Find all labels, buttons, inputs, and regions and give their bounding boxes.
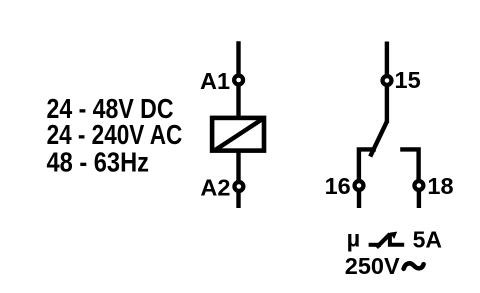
coil rating text line 2: 24 - 240V AC (47, 120, 183, 151)
terminal A1 (234, 76, 243, 85)
svg-text:16: 16 (325, 173, 351, 199)
wire: A2 bottom lead (236, 152, 240, 208)
relay coil box (212, 118, 264, 151)
terminal A2 (234, 182, 243, 191)
svg-text:18: 18 (427, 173, 453, 199)
wire: 18 bottom lead (417, 190, 421, 208)
wire: 16 bottom lead (357, 190, 361, 208)
svg-text:A1: A1 (200, 68, 230, 94)
contact arm 18 (NO) (400, 149, 418, 184)
AC sine symbol (404, 263, 424, 268)
micro-gap contact symbol with arrow (369, 232, 405, 248)
svg-text:A2: A2 (200, 175, 230, 201)
terminal 18 (414, 181, 423, 190)
wire: A1 top lead (236, 41, 240, 117)
terminal 15 (383, 76, 392, 85)
svg-text:250V: 250V (345, 253, 400, 279)
coil rating text line 3: 48 - 63Hz (47, 148, 149, 178)
svg-text:24 - 240V AC: 24 - 240V AC (47, 120, 183, 151)
svg-text:15: 15 (395, 67, 421, 93)
contact arm 16 (NC) (359, 149, 376, 184)
wire: 15 lead (385, 42, 389, 124)
svg-text:µ: µ (347, 226, 361, 252)
coil rating text line 1: 24 - 48V DC (47, 94, 174, 124)
svg-text:48 - 63Hz: 48 - 63Hz (47, 148, 149, 178)
switch blade (moving contact) (370, 122, 387, 157)
terminal 16 (355, 181, 364, 190)
svg-text:5A: 5A (413, 226, 442, 252)
